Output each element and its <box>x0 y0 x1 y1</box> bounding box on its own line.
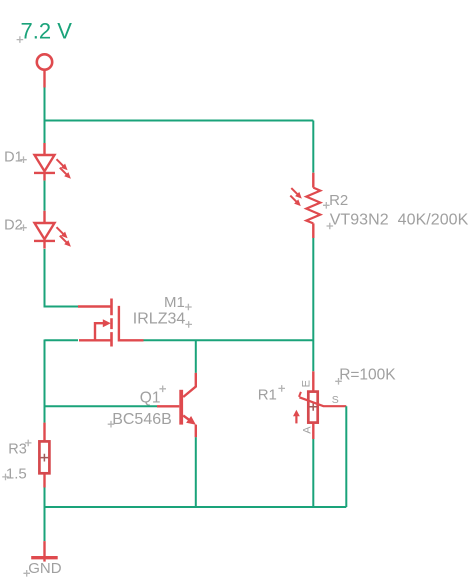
wire right vertical to R2 <box>312 121 314 173</box>
svg-text:Q1: Q1 <box>140 390 161 407</box>
wire source-gate rail <box>45 340 314 423</box>
wire S wiper to bottom <box>345 406 347 507</box>
wire base lead <box>45 405 158 407</box>
power port 7.2V <box>17 19 73 88</box>
svg-text:D2: D2 <box>4 217 23 233</box>
wire R2 to source-gate rail <box>312 238 314 371</box>
svg-text:M1: M1 <box>164 294 185 311</box>
svg-text:7.2 V: 7.2 V <box>21 19 73 44</box>
svg-text:R1: R1 <box>258 387 277 404</box>
svg-text:IRLZ34: IRLZ34 <box>133 310 186 327</box>
svg-text:R2: R2 <box>329 192 348 209</box>
photoresistor R2 <box>290 173 468 238</box>
resistor R3 <box>2 423 49 488</box>
svg-text:E: E <box>301 380 313 387</box>
wire between D1 and D2 <box>44 181 46 211</box>
svg-text:BC546B: BC546B <box>112 411 172 428</box>
svg-text:D1: D1 <box>4 149 23 165</box>
svg-text:R=100K: R=100K <box>339 367 396 384</box>
svg-text:S: S <box>332 394 339 406</box>
wire power vertical <box>44 88 46 144</box>
LED D1 <box>4 143 71 181</box>
svg-text:VT93N2 40K/200K: VT93N2 40K/200K <box>330 212 469 229</box>
mosfet M1 IRLZ34 <box>78 294 192 347</box>
svg-text:A: A <box>301 426 313 434</box>
svg-text:R3: R3 <box>8 442 27 458</box>
wire top rail <box>45 120 314 122</box>
wire bottom rail <box>45 506 347 508</box>
potentiometer R1 <box>258 367 397 440</box>
LED D2 <box>4 211 71 249</box>
wire D2 to drain corner <box>45 249 79 307</box>
svg-text:1.5: 1.5 <box>6 466 27 483</box>
transistor Q1 BC546B <box>108 373 196 437</box>
wire pot bottom <box>312 439 314 507</box>
wire collector tee <box>195 340 197 373</box>
ground <box>23 541 61 577</box>
wire emitter down <box>195 437 197 507</box>
svg-text:GND: GND <box>28 560 62 577</box>
wire R3 to gnd <box>44 488 46 542</box>
